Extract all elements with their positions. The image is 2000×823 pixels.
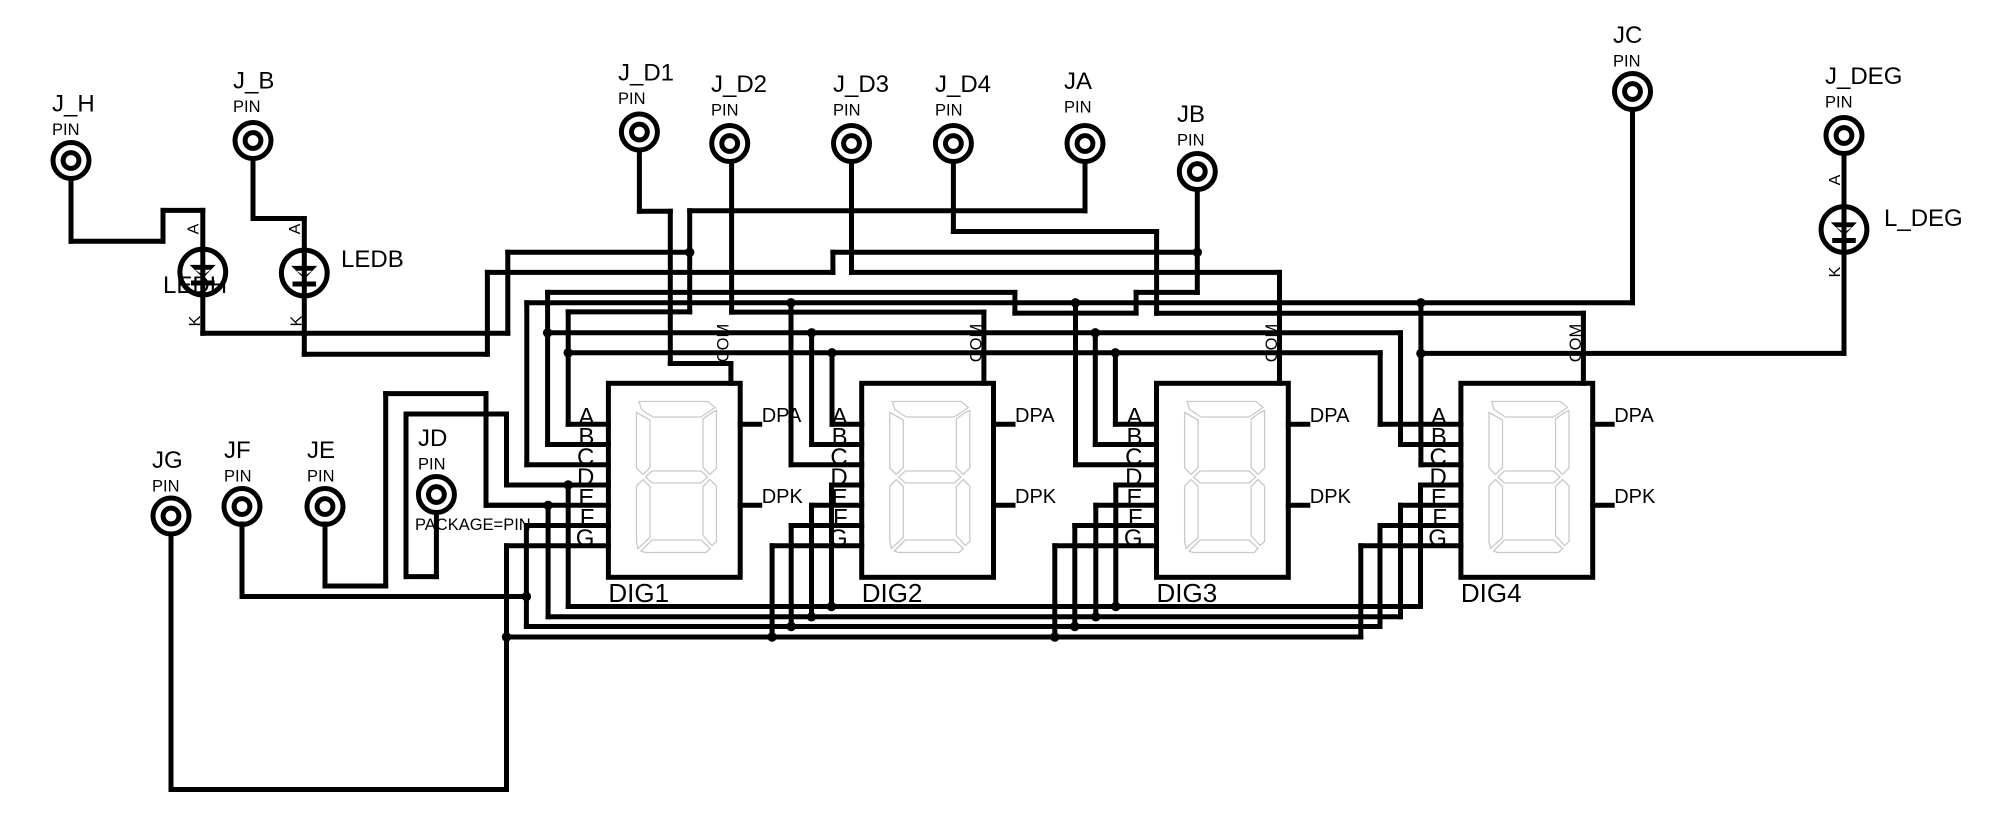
wire LEDB cathode to node JB (net B): [304, 252, 1197, 354]
wire J_B to LEDB anode: [253, 159, 304, 252]
svg-text:JD: JD: [418, 425, 447, 452]
node net D at DIG2: [827, 602, 836, 611]
wire net C risers: [527, 303, 1421, 465]
wire net C branch to L_DEG cathode: [1421, 251, 1844, 353]
connector JB: [1179, 154, 1215, 190]
svg-text:A: A: [186, 223, 203, 234]
wire net B bus to DIG2 DIG3 DIG4: [548, 333, 1401, 445]
wire JB down to net B: [1195, 190, 1200, 293]
svg-text:PIN: PIN: [1613, 53, 1641, 71]
wire J_H to LEDH anode: [71, 179, 203, 251]
svg-text:J_D2: J_D2: [711, 71, 767, 98]
node net D at DIG1: [564, 480, 573, 489]
node net A at DIG3: [1111, 348, 1120, 357]
wire JC to net C bus: [527, 110, 1633, 303]
svg-text:DIG3: DIG3: [1157, 578, 1218, 608]
node net F at DIG2: [787, 622, 796, 631]
svg-text:DPK: DPK: [1310, 486, 1352, 508]
node net F at DIG3: [1070, 622, 1079, 631]
wire LEDH cathode to node JA (net A): [203, 252, 690, 333]
wire JE to DIG1 pin E: [325, 394, 548, 586]
svg-text:PIN: PIN: [152, 478, 180, 496]
svg-text:JA: JA: [1064, 68, 1092, 95]
svg-text:DPK: DPK: [1614, 486, 1656, 508]
svg-text:LEDB: LEDB: [341, 246, 404, 273]
LED LEDB: [281, 250, 327, 296]
wire JA to DIG1 pin A: [568, 162, 1085, 312]
7-segment display DIG1: [608, 383, 740, 577]
wire net G bus: [507, 546, 1361, 637]
svg-text:DIG4: DIG4: [1461, 578, 1522, 608]
node net G at DIG2: [767, 632, 776, 641]
wire JG to DIG1 pin G riser: [171, 534, 507, 790]
svg-text:PIN: PIN: [935, 102, 963, 120]
connector J_D3: [834, 126, 870, 162]
connector JC: [1615, 74, 1651, 110]
wire JF to DIG1 pin F riser: [242, 524, 526, 597]
node net C at DIG2: [786, 298, 795, 307]
7-segment display DIG4: [1461, 383, 1593, 577]
node net B at DIG3: [1091, 328, 1100, 337]
LED LEDH: [180, 249, 226, 295]
node net E at DIG3: [1091, 612, 1100, 621]
node net C to L_DEG branch: [1416, 349, 1425, 358]
svg-text:JC: JC: [1613, 22, 1642, 49]
svg-text:PIN: PIN: [1177, 132, 1205, 150]
svg-text:PIN: PIN: [1825, 94, 1853, 112]
svg-text:JF: JF: [224, 437, 251, 464]
svg-text:A: A: [1827, 174, 1844, 185]
node net E at DIG1: [543, 501, 552, 510]
svg-text:J_H: J_H: [52, 91, 95, 118]
svg-text:J_B: J_B: [233, 68, 274, 95]
svg-text:PIN: PIN: [711, 102, 739, 120]
svg-text:DPK: DPK: [1015, 486, 1057, 508]
node net G at DIG3: [1050, 632, 1059, 641]
wire net A bus DIG1 to DIG4: [568, 312, 1380, 424]
node net E at DIG2: [807, 612, 816, 621]
node net B at DIG2: [807, 328, 816, 337]
connector JD: [418, 477, 454, 513]
node net B at DIG1: [543, 328, 552, 337]
wire net E bus: [548, 505, 1400, 617]
connector J_B: [235, 123, 271, 159]
node net C at DIG3: [1071, 298, 1080, 307]
node net F at JF: [522, 592, 531, 601]
svg-text:DPK: DPK: [762, 486, 804, 508]
svg-text:J_D1: J_D1: [618, 60, 674, 87]
svg-text:DPA: DPA: [1310, 405, 1350, 427]
connector JG: [153, 498, 189, 534]
wire net F bus: [526, 526, 1380, 627]
svg-text:J_DEG: J_DEG: [1825, 63, 1902, 90]
svg-text:LEDH: LEDH: [163, 272, 227, 299]
connector JE: [307, 489, 343, 525]
node net B junction at JB riser: [1193, 248, 1202, 257]
svg-text:DIG1: DIG1: [608, 578, 669, 608]
node net D at DIG3: [1111, 602, 1120, 611]
7-segment display DIG3: [1157, 383, 1289, 577]
svg-text:PIN: PIN: [233, 98, 261, 116]
wire JD to DIG1 pin D: [406, 414, 568, 577]
svg-text:JG: JG: [152, 447, 183, 474]
wire J_D4 to DIG4 COM: [953, 162, 1583, 384]
svg-text:DPA: DPA: [1015, 405, 1055, 427]
svg-text:PIN: PIN: [1064, 99, 1092, 117]
LED L_DEG: [1821, 207, 1867, 253]
wire net D bus: [568, 485, 1420, 607]
svg-text:PIN: PIN: [307, 468, 335, 486]
connector J_D1: [621, 114, 657, 150]
svg-text:PIN: PIN: [833, 102, 861, 120]
svg-text:PIN: PIN: [618, 90, 646, 108]
node net G at JG: [502, 632, 511, 641]
svg-text:L_DEG: L_DEG: [1884, 205, 1963, 232]
svg-text:J_D3: J_D3: [833, 71, 889, 98]
svg-text:PIN: PIN: [418, 456, 446, 474]
wire J_DEG to L_DEG anode: [1842, 154, 1847, 208]
svg-text:PIN: PIN: [224, 468, 252, 486]
node net C at DIG4: [1416, 298, 1425, 307]
svg-text:DPA: DPA: [762, 405, 802, 427]
wire J_D1 to DIG1 COM: [639, 150, 731, 383]
svg-text:A: A: [287, 223, 304, 234]
svg-text:JE: JE: [307, 437, 335, 464]
connector J_DEG: [1826, 118, 1862, 154]
connector J_H: [53, 143, 89, 179]
svg-text:J_D4: J_D4: [935, 71, 991, 98]
node net A at DIG1: [564, 348, 573, 357]
svg-text:PACKAGE=PIN: PACKAGE=PIN: [415, 516, 531, 534]
svg-text:DPA: DPA: [1614, 405, 1654, 427]
connector J_D4: [935, 126, 971, 162]
connector JF: [224, 489, 260, 525]
node net A at DIG2: [827, 348, 836, 357]
wire J_D2 to DIG2 COM: [732, 162, 984, 384]
svg-text:JB: JB: [1177, 101, 1205, 128]
svg-text:K: K: [1827, 266, 1844, 277]
connector J_D2: [712, 126, 748, 162]
wire net B from DIG1 pin B riser to JB: [548, 292, 1198, 444]
7-segment display DIG2: [862, 383, 994, 577]
wire J_D3 to DIG3 COM: [852, 162, 1280, 384]
svg-text:DIG2: DIG2: [862, 578, 923, 608]
connector JA: [1067, 126, 1103, 162]
svg-text:COM: COM: [714, 324, 732, 363]
svg-text:PIN: PIN: [52, 121, 80, 139]
node net A junction at JA riser: [685, 248, 694, 257]
